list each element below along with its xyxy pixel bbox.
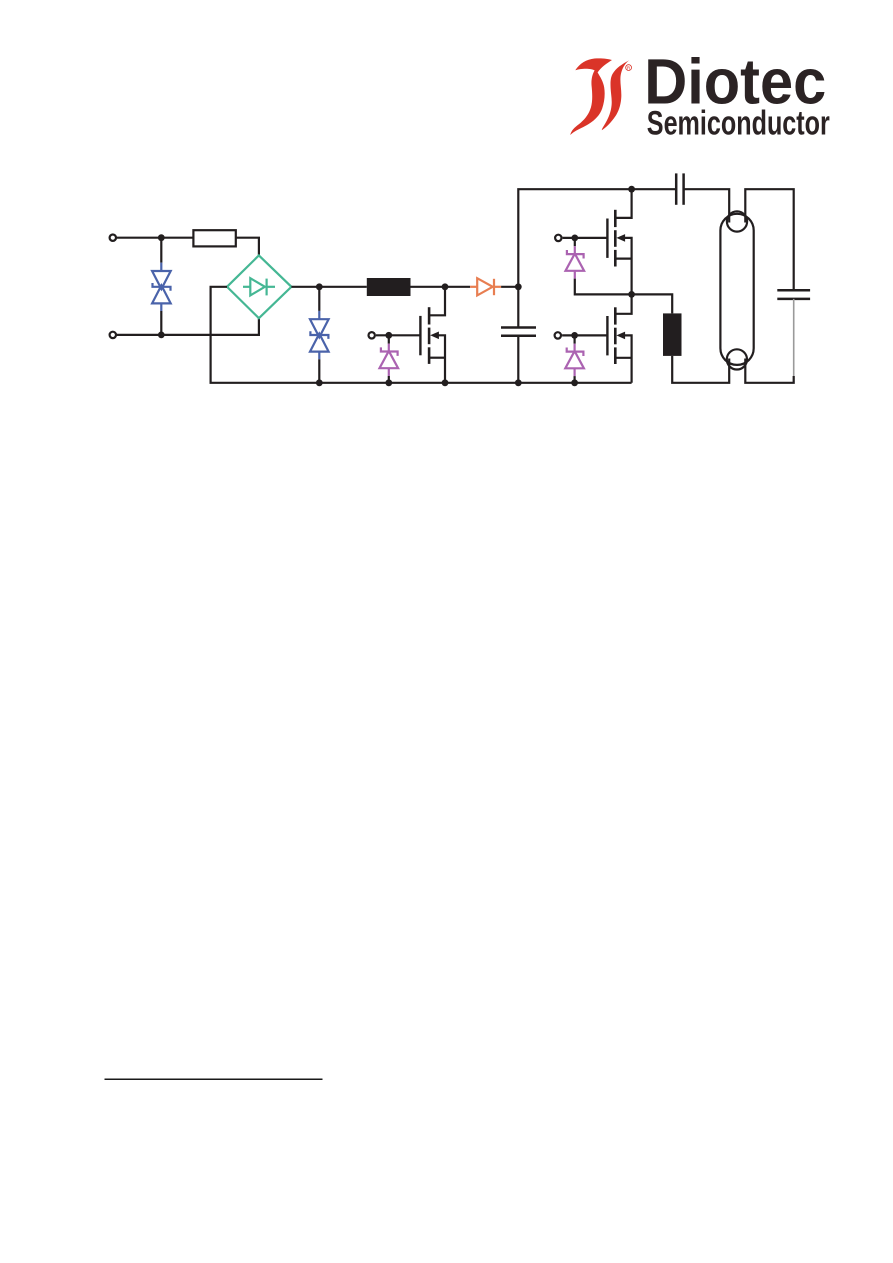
svg-text:Semiconductor: Semiconductor	[647, 105, 830, 143]
lamp tube	[720, 214, 753, 365]
terminal input N	[110, 332, 116, 338]
wire ZD3 top lead	[573, 335, 575, 343]
node midpoint	[628, 291, 635, 298]
node DC plus	[515, 283, 522, 290]
terminal gate G3	[555, 332, 561, 338]
inductor L2 ballast	[663, 313, 682, 356]
wire DC plus to C1	[517, 287, 519, 328]
wire gate G2	[563, 237, 608, 239]
varistor TVS1	[152, 263, 171, 311]
wire C1 to bottom rail	[517, 336, 519, 383]
node rail / C1	[515, 379, 522, 386]
wire lamp top right pin to C3	[745, 189, 793, 290]
lamp filament top	[727, 211, 747, 231]
wire ZD1 top lead	[388, 335, 390, 343]
node bus / Q1 drain	[442, 283, 449, 290]
mosfet Q2	[607, 189, 631, 294]
wire midpoint to L2	[632, 294, 673, 313]
inductor L1	[367, 278, 411, 296]
wire input L to resistor	[116, 237, 193, 239]
zener ZD2 gate protection	[566, 246, 585, 278]
wire bridge plus bus	[291, 286, 366, 288]
wire C3 to lamp bottom right pin gray	[793, 299, 795, 377]
bridge rectifier B1	[227, 255, 291, 318]
node rail / ZD1	[385, 379, 392, 386]
node gate2 / ZD2	[571, 235, 578, 242]
wire L1 to D1 anode	[411, 286, 471, 288]
wire TVS1 bottom lead	[160, 311, 162, 335]
footnote rule	[105, 1078, 323, 1080]
node gate3 / ZD3	[571, 332, 578, 339]
logo red glyph	[570, 58, 629, 135]
terminal gate G2	[555, 235, 561, 241]
capacitor C1 bus	[501, 328, 536, 336]
terminal gate G1	[369, 332, 375, 338]
wire DC plus riser	[518, 189, 676, 287]
wire D1 cathode to bus node	[501, 286, 518, 288]
wire L2 to lamp bottom left pin	[672, 356, 729, 383]
wire gate G1	[376, 334, 420, 336]
wire input N to bridge bottom	[116, 318, 259, 335]
wire gate G3	[562, 334, 607, 336]
terminal input L	[110, 235, 116, 241]
wire ZD1 bottom lead	[388, 376, 390, 383]
node bus / TVS2 top	[316, 283, 323, 290]
varistor TVS2	[310, 311, 329, 359]
wire TVS2 top lead	[318, 287, 320, 311]
wire TVS1 top lead	[160, 238, 162, 263]
capacitor C3 resonant	[777, 290, 810, 299]
node gate1 / ZD1	[385, 332, 392, 339]
mosfet Q1	[420, 287, 445, 383]
resistor fuse R1	[193, 230, 235, 246]
diode D1 boost	[470, 278, 501, 295]
wire resistor to bridge top	[236, 238, 259, 256]
wire bridge minus to bottom rail	[211, 287, 632, 383]
wire ZD2 bottom to midpoint	[575, 279, 632, 295]
node rail / ZD3	[571, 379, 578, 386]
node rail / Q1 source	[442, 379, 449, 386]
node junction L / TVS1 top	[158, 234, 165, 241]
wire TVS2 bottom lead	[318, 359, 320, 383]
lamp filament bottom	[727, 349, 747, 369]
zener ZD3 gate protection	[565, 344, 584, 376]
node top rail / Q2 drain	[628, 186, 635, 193]
capacitor C2 coupling	[676, 173, 683, 204]
wire ZD3 bottom lead	[573, 376, 575, 383]
wire ZD2 top lead	[574, 238, 576, 246]
zener ZD1 gate protection	[380, 344, 399, 376]
logo registered mark	[626, 65, 632, 71]
wire C3 corner to lamp bottom right pin	[745, 359, 793, 383]
node junction N / TVS1 bottom	[158, 332, 165, 339]
mosfet Q3	[607, 294, 631, 382]
node rail / TVS2 bottom	[316, 379, 323, 386]
wire C2 to lamp top left pin	[684, 189, 730, 222]
